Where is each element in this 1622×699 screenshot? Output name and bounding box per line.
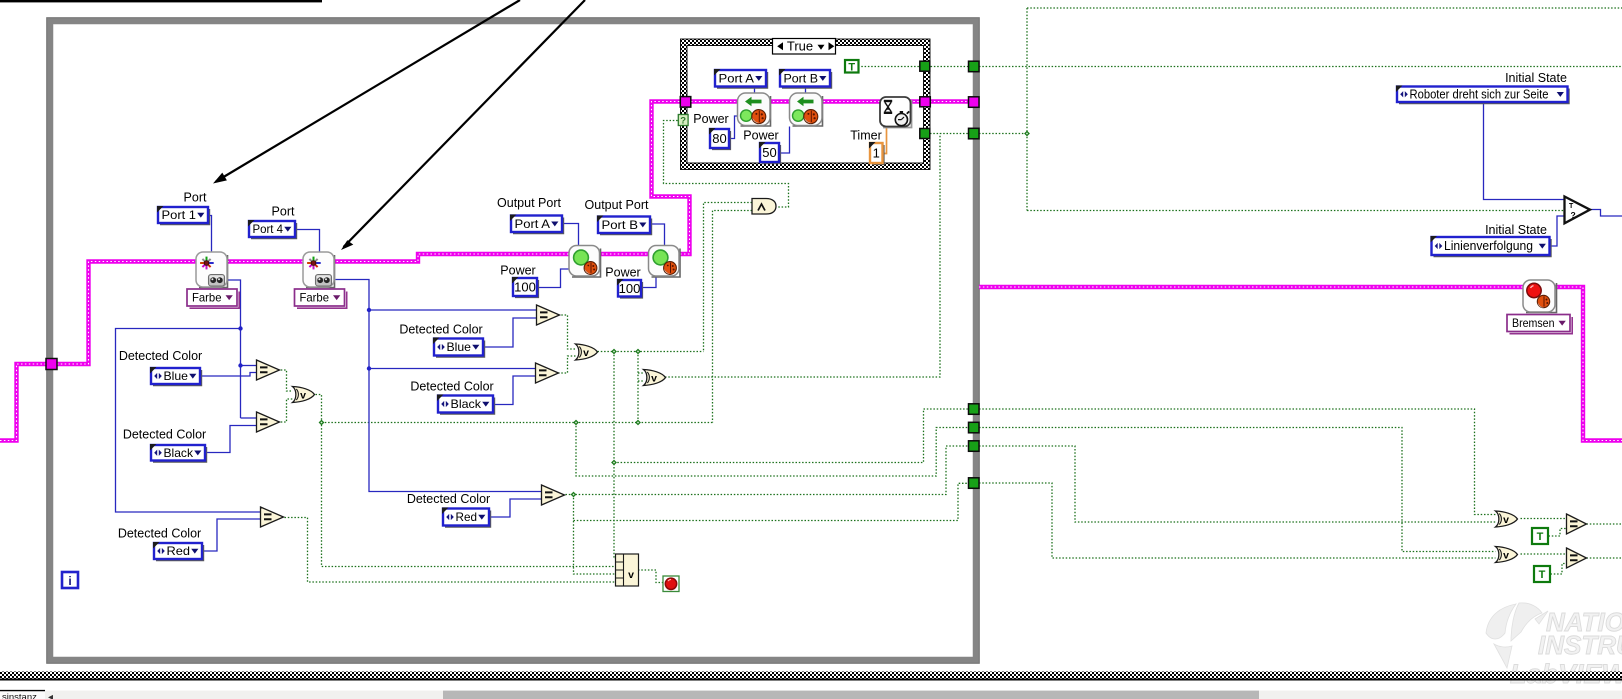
tunnel frame green y133: [969, 128, 980, 139]
numeric constant Power 50: [759, 142, 780, 163]
wire Blue-mid dropdown to eq: [484, 318, 537, 347]
NI watermark text: [1510, 607, 1622, 689]
svg-text:v: v: [1503, 514, 1509, 526]
svg-text:Power: Power: [693, 112, 728, 126]
wire boolean and input 1: [704, 203, 753, 352]
svg-text:Blue: Blue: [447, 340, 472, 354]
wire cluster from left edge: [0, 364, 46, 441]
wire boolean eq-blue to or: [558, 315, 576, 349]
tab sinstanz: [0, 691, 53, 699]
svg-text:INSTRUMENTS: INSTRUMENTS: [1538, 630, 1622, 660]
svg-text:v: v: [583, 347, 589, 359]
wire Port1 to sensor1: [208, 216, 212, 253]
dropdown Detected Color Blue mid: [433, 338, 484, 357]
wire boolean eq outputs to left or: [278, 370, 293, 422]
NI watermark logo: [1486, 603, 1548, 668]
dropdown Detected Color Red left: [153, 542, 203, 560]
tunnel frame green y483: [969, 478, 980, 489]
scrollbar thumb: [443, 691, 1259, 699]
dropdown Port B case: [779, 69, 831, 88]
wire boolean compound to stop: [638, 570, 663, 583]
iteration terminal i: [62, 572, 78, 588]
svg-text:◂: ◂: [48, 692, 53, 699]
equal? node U2 black-left: [257, 412, 280, 432]
svg-text:Red: Red: [167, 544, 191, 558]
wire junction D: [573, 420, 579, 426]
boolean constant T right-2: [1534, 566, 1550, 582]
svg-text:Detected Color: Detected Color: [119, 349, 202, 363]
svg-text:Detected Color: Detected Color: [407, 492, 490, 506]
svg-text:Red: Red: [456, 510, 478, 524]
svg-text:50: 50: [762, 145, 776, 160]
svg-text:True: True: [787, 39, 813, 54]
wire boolean or-r2 to eq: [1521, 553, 1567, 555]
wire PortB to motor2: [650, 224, 665, 247]
dropdown Detected Color Black left: [150, 444, 206, 462]
case selector label True: [773, 39, 836, 55]
dropdown Detected Color Red right: [442, 508, 490, 527]
wire boolean left or output to compound: [316, 395, 616, 567]
or gate U9 left: [293, 387, 315, 403]
svg-text:Detected Color: Detected Color: [118, 527, 201, 541]
wire sensor2 output rail: [336, 280, 542, 492]
wire Black dropdown to eq2: [206, 426, 257, 453]
numeric constant Timer 1: [869, 142, 884, 164]
svg-text:80: 80: [712, 131, 726, 146]
svg-text:v: v: [1503, 550, 1509, 562]
select node U16: [1565, 197, 1591, 224]
wire cluster to right edge: [979, 287, 1622, 441]
svg-text:T: T: [848, 61, 855, 73]
annotation arrow 2: [341, 0, 585, 250]
wire 80 to motor: [730, 116, 739, 139]
svg-text:v: v: [628, 569, 634, 581]
label Farbe 1: [187, 289, 239, 308]
svg-text:Port 4: Port 4: [253, 222, 284, 236]
wire boolean tunnel427 to or-r2: [979, 428, 1496, 552]
svg-text:Farbe: Farbe: [300, 291, 330, 305]
wire boolean rail x614: [614, 352, 616, 559]
wire PortA to motor1: [563, 224, 579, 247]
svg-text:Port 1: Port 1: [162, 208, 197, 222]
wire junction K: [367, 308, 371, 312]
svg-text:Output Port: Output Port: [497, 196, 561, 210]
wire to eq-mid-blue: [369, 309, 537, 311]
equal? node U8 right-2: [1567, 548, 1587, 568]
motor output icon motor A: [569, 246, 601, 278]
wire to eq2: [241, 417, 257, 419]
svg-text:?: ?: [680, 116, 686, 127]
svg-text:Initial State: Initial State: [1485, 223, 1547, 237]
svg-text:sinstanz: sinstanz: [2, 692, 37, 699]
equal? node U4 blue-mid: [537, 305, 560, 325]
svg-text:Power: Power: [605, 266, 640, 280]
svg-text:Black: Black: [164, 446, 195, 460]
dropdown Initial State Roboter: [1396, 86, 1569, 104]
svg-text:T: T: [1569, 203, 1574, 210]
wire junction F: [611, 460, 617, 466]
wire rail to eq-red-left: [116, 329, 261, 513]
timer wait icon: [880, 97, 912, 128]
dropdown Detected Color Blue left: [150, 367, 201, 385]
svg-text:Detected Color: Detected Color: [410, 380, 493, 394]
label Farbe 2: [295, 289, 347, 308]
label Bremsen: [1507, 315, 1572, 334]
or gate U13 right-2: [1496, 547, 1518, 563]
svg-text:?: ?: [1571, 210, 1576, 220]
motor reverse icon motor A reverse: [738, 93, 771, 126]
wire boolean eq-black to or: [558, 356, 576, 373]
dropdown Initial State Linienverfolgung: [1431, 236, 1551, 256]
wire boolean or2 output up to tunnel: [665, 134, 940, 378]
dropdown Port 4: [248, 220, 296, 238]
while loop frame: [50, 21, 976, 660]
svg-text:Port B: Port B: [602, 218, 639, 232]
wire junction A: [611, 349, 617, 355]
wire Red dropdown to eq-red-left: [203, 519, 261, 551]
wire boolean to tunnel y409: [614, 409, 968, 463]
wire Roboter dropdown to select: [1484, 102, 1565, 200]
wire junction E: [635, 420, 641, 426]
numeric constant Power 100 B: [617, 279, 642, 298]
or gate U10 mid-1: [576, 344, 598, 360]
wire Power100 to motor2: [642, 277, 657, 288]
wire Power100 to motor1: [538, 269, 570, 288]
tunnel frame magenta y102: [969, 97, 980, 108]
wire 1 to Timer: [883, 127, 887, 154]
svg-text:Linienverfolgung: Linienverfolgung: [1444, 239, 1533, 253]
svg-text:Black: Black: [451, 397, 483, 411]
svg-text:Detected Color: Detected Color: [399, 323, 482, 337]
wire boolean rail y422: [322, 422, 713, 424]
svg-text:Port B: Port B: [784, 71, 819, 85]
dropdown Port 1: [157, 206, 209, 224]
top border line of label above: [0, 0, 322, 2]
wire boolean eq-red-right to tunnel y446: [566, 446, 969, 495]
wire cluster main through sensors and motors: [53, 102, 690, 365]
wire boolean to select: [1027, 210, 1565, 212]
svg-text:Port A: Port A: [515, 217, 551, 231]
case selector tunnel ?: [678, 115, 688, 127]
or gate U12 right-1: [1496, 511, 1518, 527]
dropdown Detected Color Black mid: [437, 395, 494, 414]
svg-text:Power: Power: [500, 264, 535, 278]
wire boolean up and right: [1027, 8, 1622, 211]
wire boolean to right edge top: [979, 66, 1622, 68]
wire junction C: [319, 420, 325, 426]
wire cluster inside case: [691, 99, 920, 103]
numeric constant Power 80: [709, 128, 730, 149]
wire boolean to case selector: [664, 121, 789, 208]
wire junction L: [367, 366, 371, 370]
wire junction J: [238, 363, 242, 367]
svg-text:1: 1: [873, 146, 880, 161]
equal? node U3 red-left: [261, 507, 284, 527]
compound or node U15: [616, 554, 639, 586]
wire sensor1 output rail: [227, 280, 241, 418]
wire boolean T2 to eq: [1551, 564, 1567, 575]
wire Linienverfolgung to select: [1550, 216, 1565, 246]
wire PortB case to motor: [805, 87, 807, 94]
wire Blue dropdown to eq1: [200, 373, 257, 377]
svg-text:v: v: [651, 373, 657, 385]
color sensor icon sensor 2: [303, 252, 335, 288]
structure border bottom bar: [0, 672, 1622, 679]
svg-text:Farbe: Farbe: [192, 291, 222, 305]
wire to eq-mid-black: [369, 368, 536, 370]
wire boolean eq-r1 output: [1587, 523, 1622, 525]
wire boolean branch to tunnel y483: [574, 483, 969, 520]
stop button terminal: [663, 576, 679, 592]
wire 50 to motor: [780, 127, 790, 154]
svg-text:v: v: [300, 390, 306, 402]
svg-text:T: T: [1539, 569, 1546, 581]
svg-text:100: 100: [514, 280, 536, 295]
boolean constant T right-1: [1532, 528, 1548, 544]
tunnel frame magenta left: [46, 359, 57, 370]
structure border bottom line: [0, 679, 1622, 681]
numeric constant Power 100 A: [512, 277, 538, 297]
case structure border: [681, 39, 931, 170]
wire junction G: [571, 492, 577, 498]
svg-text:Blue: Blue: [164, 369, 189, 383]
wire boolean tunnel409 to or-r1: [979, 409, 1496, 515]
svg-text:Output Port: Output Port: [585, 198, 649, 212]
brake icon Bremsen: [1523, 280, 1557, 313]
wire boolean tunnel y133: [979, 133, 1027, 135]
tunnel frame green y427: [969, 422, 980, 433]
wire boolean rail x638 to or2: [638, 352, 644, 423]
tunnel frame green y66: [969, 61, 980, 71]
wire Black-mid dropdown to eq: [493, 376, 536, 405]
dropdown Output Port A: [510, 215, 563, 234]
color sensor icon sensor 1: [196, 252, 228, 288]
wire select output: [1590, 210, 1622, 217]
tunnel case green y66: [920, 61, 930, 71]
tunnel frame green y446: [969, 441, 980, 452]
equal? node U7 right-1: [1567, 514, 1587, 534]
equal? node U5 black-mid: [536, 363, 559, 383]
svg-text:Port: Port: [184, 191, 207, 205]
and gate U14: [752, 199, 776, 215]
wire boolean tunnel483 to or-r2: [979, 483, 1496, 558]
wire boolean branch to compound: [574, 495, 616, 575]
svg-text:Initial State: Initial State: [1505, 71, 1567, 85]
svg-text:i: i: [68, 574, 71, 588]
equal? node U1 blue-left: [257, 360, 280, 380]
wire boolean and input 2: [713, 211, 753, 423]
bottom bar background: [0, 691, 1622, 699]
tunnel case green y133: [920, 129, 930, 139]
annotation arrow 1: [213, 0, 520, 184]
or gate U11 mid-2: [644, 370, 666, 386]
wire boolean T to frame tunnel: [858, 66, 968, 68]
svg-text:Roboter dreht sich zur Seite: Roboter dreht sich zur Seite: [1410, 87, 1549, 101]
wire cluster case to frame tunnel: [930, 99, 968, 103]
wire junction B: [635, 349, 641, 355]
wire Port4 to sensor2: [295, 230, 320, 253]
wire boolean T1 to eq: [1549, 529, 1567, 537]
wire Red-right dropdown to eq: [489, 499, 542, 517]
wire boolean eq-r2 output: [1587, 557, 1622, 559]
while loop frame outer edge: [47, 18, 980, 664]
svg-text:Detected Color: Detected Color: [123, 428, 206, 442]
svg-text:Timer: Timer: [850, 129, 881, 143]
wire boolean tunnel446 to or-r1: [979, 446, 1496, 522]
wire to eq1: [241, 365, 257, 367]
dropdown Port A case: [714, 69, 767, 88]
equal? node U6 red-right: [542, 485, 565, 505]
boolean constant T in case: [845, 60, 859, 73]
svg-text:T: T: [1537, 531, 1544, 543]
svg-text:Port A: Port A: [719, 71, 755, 85]
dropdown Output Port B: [597, 216, 651, 235]
wire boolean or1 output: [598, 351, 704, 353]
tunnel case magenta right: [920, 97, 931, 107]
motor reverse icon motor B reverse: [790, 93, 823, 126]
tunnel frame green y409: [969, 404, 980, 415]
wire boolean eq-red-left to compound: [285, 518, 616, 583]
wire boolean to tunnel y427 via rail x576: [576, 423, 968, 477]
wire junction H: [1024, 131, 1030, 137]
wire boolean or-r1 to eq: [1521, 518, 1567, 520]
svg-text:Port: Port: [272, 205, 295, 219]
tunnel case magenta left: [680, 97, 691, 108]
svg-text:Bremsen: Bremsen: [1512, 316, 1555, 330]
wire PortA case to motor: [754, 87, 756, 94]
svg-text:Power: Power: [743, 129, 778, 143]
wire junction I: [238, 326, 242, 330]
svg-text:100: 100: [619, 281, 641, 296]
wire boolean case tunnel to frame tunnel: [930, 133, 968, 135]
motor output icon motor B: [649, 246, 681, 278]
